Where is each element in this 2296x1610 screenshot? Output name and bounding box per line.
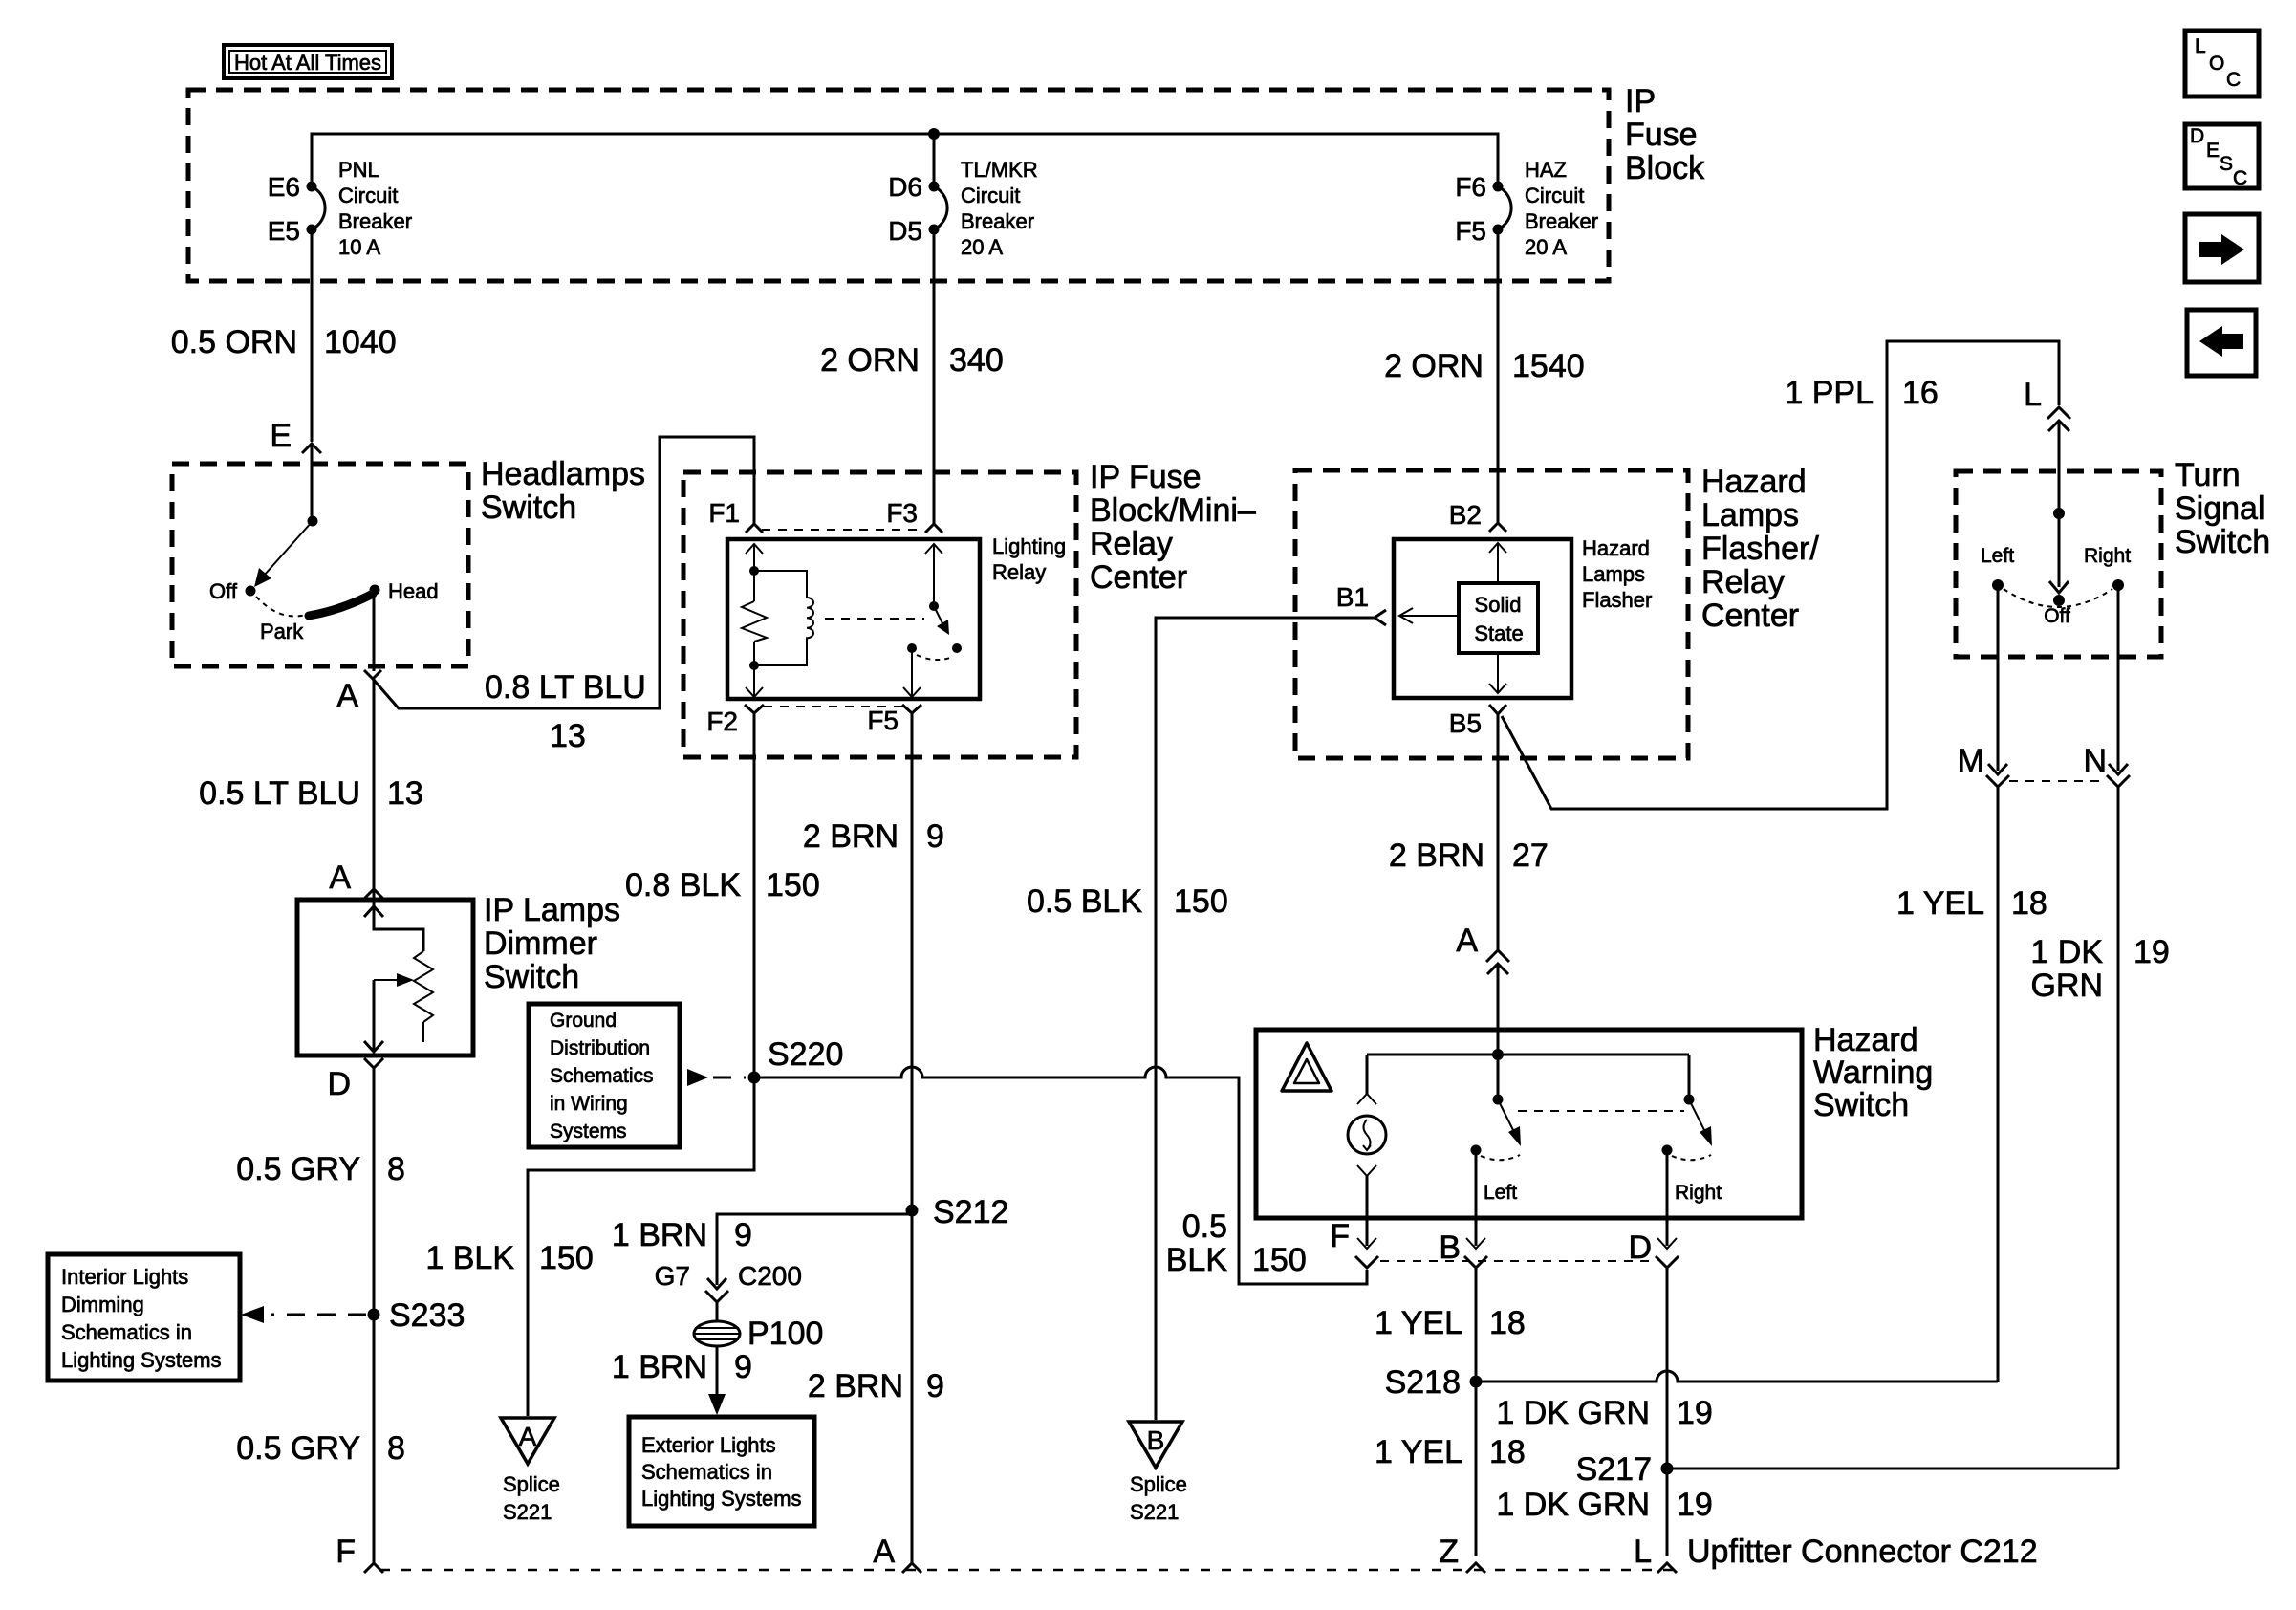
svg-text:L: L [1634,1534,1652,1570]
relay switch blade [934,606,945,629]
svg-text:Warning: Warning [1813,1055,1933,1091]
svg-text:1 BLK: 1 BLK [425,1240,514,1276]
svg-text:IP: IP [1625,83,1656,120]
svg-text:Ground: Ground [550,1010,617,1032]
wire from Head contact down to A [373,593,376,671]
rheostat resistor zigzag [414,951,433,1022]
grommet P100 [694,1321,740,1346]
svg-text:Lighting Systems: Lighting Systems [61,1348,222,1372]
splice S233 node [368,1309,380,1321]
svg-text:B1: B1 [1336,582,1369,612]
svg-text:1 DK: 1 DK [2030,934,2103,970]
relay output arrow down [903,687,921,697]
svg-text:F6: F6 [1455,172,1486,202]
svg-text:1 DK GRN: 1 DK GRN [1496,1395,1650,1431]
svg-text:Breaker: Breaker [338,209,412,233]
relay switch pivot [929,601,939,611]
connector N double chevron [2109,764,2128,774]
svg-text:8: 8 [387,1430,405,1467]
terminal A chevron [364,670,381,679]
circuit breaker TL/MKR terminals D6/D5 [929,182,940,192]
wire: TL/MKR tap [933,134,936,186]
wire: 0.5 BLK 150 from B1 to splice B [1156,618,1375,1420]
wire: 1 YEL 18 from B to S218 [1475,1268,1478,1556]
svg-text:Breaker: Breaker [1525,209,1598,233]
connector C212 dashed line [380,1569,1673,1572]
svg-text:GRN: GRN [2030,968,2103,1004]
hazard switch internal bus [1367,1054,1689,1056]
svg-text:1 DK GRN: 1 DK GRN [1496,1487,1650,1523]
svg-text:Off: Off [209,579,238,603]
dashed reference line to S220 [713,1077,746,1079]
wire S217 to N leg [1667,1468,2118,1470]
svg-text:2 BRN: 2 BRN [803,818,899,855]
svg-text:D6: D6 [888,172,922,202]
svg-text:Hazard: Hazard [1813,1022,1918,1058]
svg-text:L: L [2024,377,2042,413]
svg-text:D5: D5 [888,216,922,246]
reference arrow from Ground Distribution box [687,1069,708,1086]
rheostat tail [422,1022,424,1042]
node on internal bus [1492,1049,1504,1060]
svg-text:F3: F3 [886,498,918,528]
svg-text:TL/MKR: TL/MKR [961,158,1038,182]
right stationary contact [1662,1145,1673,1156]
svg-text:2 BRN: 2 BRN [808,1368,903,1404]
flasher trigger arrow to B1 [1399,615,1459,617]
svg-text:Flasher: Flasher [1582,588,1652,612]
svg-text:IP Fuse: IP Fuse [1090,459,1202,495]
connector dashed line F1-F3 [762,529,920,531]
IP Lamps Dimmer Switch box [297,900,473,1055]
wire to grommet [716,1302,719,1321]
svg-text:B5: B5 [1449,708,1482,738]
splice triangle B (S221) [1129,1422,1182,1468]
svg-text:13: 13 [550,718,586,754]
svg-text:150: 150 [539,1240,594,1276]
dimmer output arrow down [364,1041,383,1052]
wire S218 to M leg (with hop) [1476,1371,1998,1382]
svg-text:0.5 GRY: 0.5 GRY [236,1430,360,1467]
svg-text:Switch: Switch [481,490,576,526]
svg-text:Center: Center [1701,598,1799,634]
Hot At All Times callout box [224,45,392,78]
headlamp switch pivot [308,516,318,527]
svg-text:1 BRN: 1 BRN [612,1349,707,1385]
wire: E into switch [311,446,314,521]
svg-text:Switch: Switch [1813,1087,1909,1123]
relay resistor zigzag [742,601,767,642]
Interior Lights note box [48,1254,240,1381]
splice S218 node [1470,1376,1483,1388]
flasher output arrow down [1489,684,1506,693]
svg-text:BLK: BLK [1166,1242,1228,1278]
svg-text:C200: C200 [738,1261,802,1291]
svg-text:Lighting: Lighting [992,534,1066,558]
wire: top feed bus [312,134,1498,186]
wire from Right contact down to N [2117,587,2120,771]
wire from connector A into hazard switch [1497,964,1500,1099]
svg-text:Systems: Systems [550,1120,627,1142]
wire branch S212 to G7 [717,1214,912,1285]
dimmer wire jog to rheostat [374,906,423,951]
svg-text:Switch: Switch [2175,524,2270,560]
middle stationary contact [1471,1145,1482,1156]
terminal Z chevron (connector C212) [1466,1563,1485,1573]
splice S220 node [748,1072,761,1084]
svg-text:9: 9 [734,1349,752,1385]
svg-text:8: 8 [387,1151,405,1187]
connector B double chevron [1466,1238,1485,1249]
svg-text:C: C [2233,167,2247,189]
splice S212 node [906,1205,919,1217]
ground wire S220 elbow to splice [528,1077,754,1416]
svg-text:Splice: Splice [1130,1472,1187,1496]
Turn Signal Switch dashed box [1956,471,2161,657]
terminal F1 chevron [746,524,763,533]
contact Left [1992,579,2004,591]
middle switch pivot [1493,1095,1504,1105]
middle travel dashed arc [1481,1155,1520,1160]
svg-text:M: M [1958,743,1984,779]
relay node upper [749,566,759,576]
svg-text:Circuit: Circuit [1525,184,1584,207]
svg-text:A: A [519,1422,537,1451]
lamp branch wire [1366,1055,1369,1094]
right arrow icon box [2185,214,2259,282]
svg-text:P100: P100 [747,1316,823,1352]
relay switch feed arrow up [925,544,942,554]
svg-text:2 BRN: 2 BRN [1389,838,1484,874]
relay coil branch [754,571,813,665]
Park dashed travel arc [256,597,306,616]
svg-text:E: E [270,418,292,454]
wire from Left contact down to M [1997,587,2000,771]
svg-text:Circuit: Circuit [961,184,1020,207]
svg-text:0.5 ORN: 0.5 ORN [171,324,297,360]
relay left wire [753,544,755,601]
relay left wire lower [753,642,755,696]
svg-text:0.5 BLK: 0.5 BLK [1027,883,1142,920]
dimmer input arrow up [364,906,383,917]
svg-text:O: O [2209,53,2224,75]
svg-text:F: F [336,1534,356,1570]
svg-text:Off: Off [2044,605,2070,627]
svg-text:Right: Right [2084,545,2131,567]
circuit breaker PNL arc [312,186,325,229]
svg-text:A: A [1456,923,1478,959]
wire: 2 BRN 27 from B5 down [1497,714,1500,950]
Hazard Lamps Flasher/Relay Center dashed box [1295,470,1688,758]
svg-text:Relay: Relay [992,560,1046,584]
left arrow icon box [2187,310,2256,376]
svg-text:19: 19 [1677,1395,1713,1431]
svg-text:Fuse: Fuse [1625,117,1698,153]
svg-text:Lamps: Lamps [1701,497,1799,533]
connector dashed line M-N [2009,780,2107,782]
svg-text:IP Lamps: IP Lamps [484,892,620,928]
connector dashed line F2-F5 [764,706,902,707]
svg-text:State: State [1474,621,1523,645]
svg-text:Splice: Splice [503,1472,560,1496]
svg-text:S221: S221 [1130,1500,1179,1524]
svg-text:18: 18 [2011,885,2047,922]
svg-text:N: N [2083,743,2107,779]
svg-text:Schematics: Schematics [550,1065,654,1087]
svg-text:C: C [2226,69,2241,91]
svg-text:340: 340 [949,342,1004,379]
connector F double chevron (hazard ground) [1357,1238,1376,1249]
svg-text:Distribution: Distribution [550,1037,650,1059]
connector M double chevron [1988,764,2007,774]
svg-text:S217: S217 [1576,1451,1652,1488]
wire: 2 ORN 1540 from HAZ F5 to B2 [1497,229,1500,523]
IP Fuse Block/Mini-Relay Center dashed box [683,472,1076,757]
svg-text:E: E [2206,140,2220,162]
svg-text:A: A [329,859,351,896]
svg-text:Dimming: Dimming [61,1293,144,1316]
splice triangle A (S221) [501,1418,554,1464]
svg-text:D: D [2190,125,2204,147]
svg-text:16: 16 [1902,375,1939,411]
terminal F chevron (connector C212) [364,1563,383,1573]
svg-text:Block: Block [1625,150,1705,186]
svg-text:B: B [1147,1425,1165,1455]
svg-text:18: 18 [1489,1434,1526,1470]
connector D double chevron [1657,1238,1677,1249]
svg-text:13: 13 [387,775,423,812]
svg-text:Lamps: Lamps [1582,562,1645,586]
Hazard Warning Switch box [1256,1030,1802,1218]
wire: 1 PPL 16 from B5 to turn signal L [1502,341,2059,809]
svg-text:S221: S221 [503,1500,552,1524]
wire: 0.5 LT BLU 13 down to dimmer [373,679,376,929]
dimmer output wire [373,980,376,1052]
svg-text:Left: Left [1484,1182,1517,1204]
svg-text:Hazard: Hazard [1701,464,1807,500]
svg-text:Breaker: Breaker [961,209,1034,233]
right switch blade [1689,1099,1707,1136]
svg-text:0.8 LT BLU: 0.8 LT BLU [485,669,646,706]
right travel dashed arc [1672,1155,1711,1160]
svg-text:Turn: Turn [2175,457,2241,493]
svg-text:S: S [2220,153,2233,175]
svg-text:F1: F1 [708,498,740,528]
contact Head [370,585,380,596]
contact Right [2112,579,2124,591]
wire: 0.8 LT BLU 13 branch to relay F1 [373,437,754,708]
svg-text:S233: S233 [389,1297,465,1334]
svg-text:1040: 1040 [324,324,397,360]
circuit breaker PNL terminals E6/E5 [307,182,317,192]
svg-text:Relay: Relay [1090,526,1173,562]
terminal E chevron [302,444,321,453]
headlamp switch arm with arrowhead [264,521,313,576]
Hazard Lamps Flasher box [1394,539,1571,698]
svg-text:1540: 1540 [1512,348,1585,384]
lamp lower chevron [1357,1165,1376,1176]
LOC icon box [2185,31,2259,97]
relay output wire down [911,648,913,696]
svg-text:2 ORN: 2 ORN [1384,348,1484,384]
mechanical link dashed [1518,1110,1684,1112]
svg-text:Relay: Relay [1701,564,1785,600]
svg-text:1 YEL: 1 YEL [1896,885,1984,922]
svg-text:E6: E6 [268,172,300,202]
svg-text:20 A: 20 A [1525,235,1567,259]
svg-text:A: A [336,678,358,714]
wire: 2 BRN 9 from F5 down [911,713,914,1564]
connector A double chevron (hazard feed) [1486,950,1509,962]
svg-text:0.5: 0.5 [1182,1208,1227,1245]
svg-text:B2: B2 [1449,500,1482,530]
circuit breaker TL/MKR arc [934,186,947,229]
splice S217 node [1661,1463,1674,1475]
svg-text:Dimmer: Dimmer [484,925,597,962]
svg-text:Block/Mini–: Block/Mini– [1090,492,1256,529]
right switch branch [1688,1055,1691,1099]
circuit breaker HAZ terminals F6/F5 [1493,182,1504,192]
svg-text:19: 19 [2134,934,2170,970]
svg-text:Interior Lights: Interior Lights [61,1265,188,1289]
svg-text:19: 19 [1677,1487,1713,1523]
wire L into switch [2058,421,2061,587]
relay blade end contact [952,643,962,653]
svg-text:L: L [2195,35,2206,57]
flasher input arrow up [1489,543,1506,553]
wire: 0.5 ORN 1040 from E5 to headlamps switch [311,229,314,442]
svg-text:A: A [873,1534,895,1570]
contact Off [246,586,256,597]
middle switch blade [1498,1099,1516,1136]
terminal A chevron (connector C212) [902,1563,921,1573]
terminal D chevron [364,1058,383,1068]
svg-text:0.5 GRY: 0.5 GRY [236,1151,360,1187]
svg-text:150: 150 [1174,883,1228,920]
svg-text:Center: Center [1090,559,1187,596]
svg-text:D: D [327,1066,351,1102]
terminal A chevron (dimmer) [364,889,383,899]
svg-text:Lighting Systems: Lighting Systems [641,1487,802,1511]
svg-text:F2: F2 [706,707,738,736]
wire from right contact to D [1666,1150,1669,1246]
svg-text:Schematics in: Schematics in [641,1460,772,1484]
svg-text:PNL: PNL [338,158,379,182]
terminal L chevron (connector C212) [1657,1563,1677,1573]
terminal B2 chevron [1489,523,1506,532]
contact Off (turn signal) [2053,595,2065,606]
Headlamps Switch dashed box [172,464,468,666]
svg-text:10 A: 10 A [338,235,380,259]
svg-text:F5: F5 [1455,216,1486,246]
svg-text:HAZ: HAZ [1525,158,1567,182]
svg-text:Flasher/: Flasher/ [1701,531,1819,567]
svg-text:Hazard: Hazard [1582,536,1650,560]
svg-text:150: 150 [766,867,820,903]
svg-text:F: F [1330,1218,1350,1254]
svg-text:Right: Right [1675,1182,1722,1204]
svg-text:Left: Left [1981,545,2014,567]
svg-text:1 YEL: 1 YEL [1375,1434,1462,1470]
svg-text:0.5 LT BLU: 0.5 LT BLU [199,775,360,812]
connector G7/C200 double chevron [707,1278,726,1289]
svg-text:Headlamps: Headlamps [481,456,645,492]
lamp output wire to F [1366,1176,1369,1246]
ground bus wire S220 to hazard switch (with hops) [754,1067,1367,1284]
svg-text:Upfitter Connector C212: Upfitter Connector C212 [1687,1534,2038,1570]
svg-text:27: 27 [1512,838,1549,874]
turn signal junction node [2053,508,2065,519]
wire from middle contact to B [1475,1150,1478,1246]
switch blade to Head [309,594,373,616]
svg-text:0.8 BLK: 0.8 BLK [625,867,741,903]
relay left output arrow down [746,687,763,697]
wire: 1 YEL 18 from M to S218 [1997,787,2000,1382]
flasher output wire [1497,653,1499,693]
hazard warning triangle icon [1282,1043,1332,1091]
svg-text:Solid: Solid [1475,593,1522,617]
connector L double chevron [2047,407,2070,419]
circuit breaker HAZ arc [1498,186,1511,229]
terminal F5 chevron [902,705,921,713]
wire arrow into Exterior Lights note [716,1346,719,1398]
svg-text:1 BRN: 1 BRN [612,1217,707,1253]
terminal F2 chevron [745,705,764,713]
svg-text:Exterior Lights: Exterior Lights [641,1433,776,1457]
Ground Distribution note box [529,1004,680,1147]
svg-text:G7: G7 [655,1261,690,1291]
svg-text:9: 9 [734,1217,752,1253]
svg-text:S220: S220 [768,1036,843,1073]
Lighting Relay box [727,539,980,699]
terminal B5 chevron [1489,705,1506,714]
relay switch wire [933,544,935,606]
IP Fuse Block dashed enclosure [188,90,1609,281]
svg-text:Hot At All Times: Hot At All Times [234,51,381,75]
svg-text:Switch: Switch [484,959,579,995]
svg-text:1 PPL: 1 PPL [1785,375,1874,411]
svg-text:Circuit: Circuit [338,184,398,207]
flasher lamp symbol [1348,1116,1386,1154]
relay mechanical link dashed [825,618,924,620]
dashed reference line to Interior Lights note [271,1314,366,1316]
svg-text:Park: Park [260,620,304,643]
svg-text:F5: F5 [867,706,899,735]
svg-text:9: 9 [926,818,944,855]
wire: 2 ORN 340 from D5 to F3 [933,229,936,524]
svg-text:18: 18 [1489,1305,1526,1341]
right switch pivot [1684,1095,1695,1105]
relay node lower [749,661,759,670]
relay stationary contact [907,643,917,653]
turn signal actuator arrowhead [2049,581,2069,593]
svg-text:S218: S218 [1385,1364,1461,1401]
svg-text:in Wiring: in Wiring [550,1093,628,1115]
terminal B1 chevron [1375,610,1386,625]
svg-text:20 A: 20 A [961,235,1003,259]
terminal F3 chevron [925,524,942,533]
wire: 0.8 BLK 150 from F2 to S220 [753,713,756,1170]
wire: 1 DK GRN 19 from D to S217 [1666,1268,1669,1556]
node: bus junction [928,128,940,140]
svg-text:E5: E5 [268,216,300,246]
svg-text:150: 150 [1252,1242,1307,1278]
svg-text:Head: Head [388,579,439,603]
Solid State box [1459,583,1538,653]
wire: 0.5 GRY 8 down from D [373,1068,376,1564]
svg-text:S212: S212 [933,1194,1008,1230]
svg-text:2 ORN: 2 ORN [820,342,920,379]
